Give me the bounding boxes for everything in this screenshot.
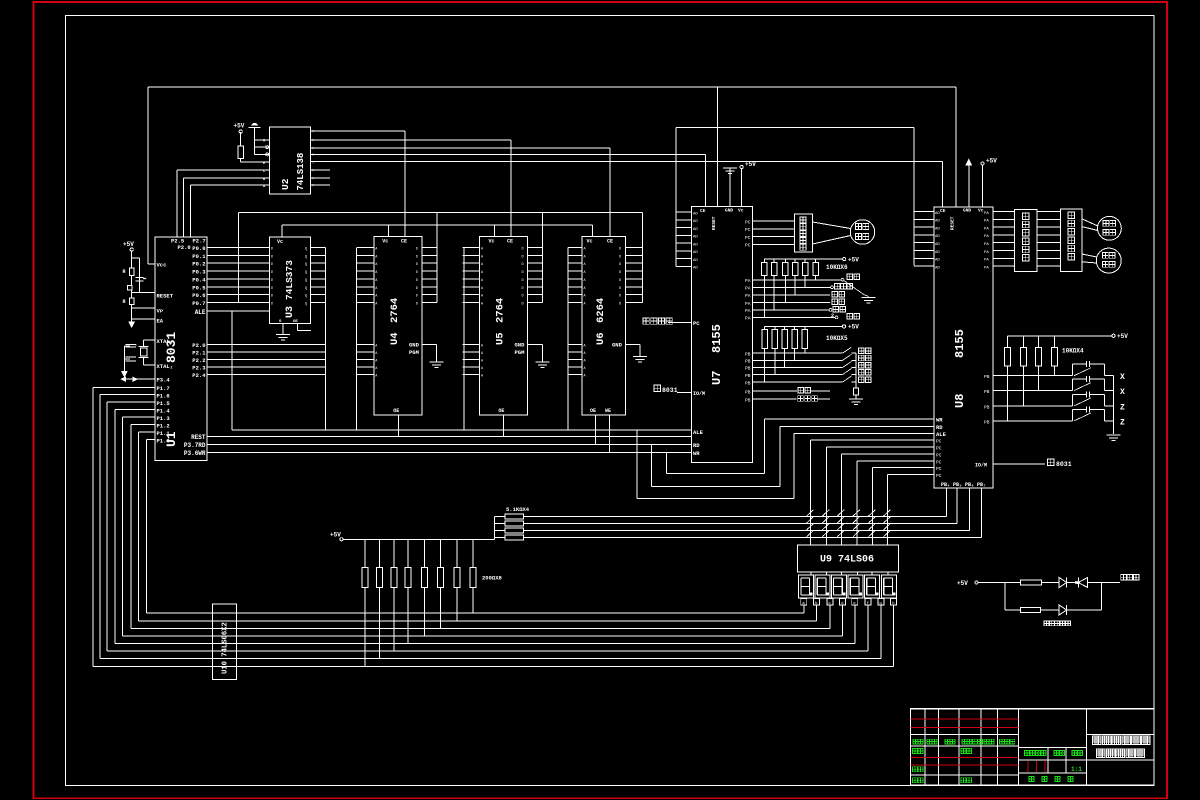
- svg-text:+5V: +5V: [745, 161, 756, 168]
- wire ALE staircase U7 to U8: [636, 430, 638, 498]
- svg-text:+5V: +5V: [986, 158, 997, 165]
- U5 OE pin down: [502, 415, 504, 437]
- svg-text:ALE: ALE: [936, 431, 947, 438]
- svg-text:P3.6WR: P3.6WR: [184, 450, 206, 457]
- wire links between boxes: [1037, 212, 1061, 267]
- svg-text:D: D: [619, 271, 621, 275]
- svg-text:D: D: [522, 303, 524, 307]
- resistor network 10K x6: [762, 259, 819, 317]
- wire AD data rail y=127.5 between U7 and U8: [676, 127, 914, 129]
- svg-text:AD: AD: [693, 267, 698, 271]
- wire ALE branch down to address rail: [231, 311, 233, 430]
- svg-text:CE: CE: [507, 239, 513, 245]
- wire address bus vertical from U3: [325, 248, 327, 431]
- svg-text:C: C: [263, 170, 265, 174]
- svg-text:R: R: [123, 299, 126, 305]
- power +5V for U1 reset circuit: [130, 248, 133, 251]
- svg-text:D: D: [271, 303, 273, 307]
- svg-text:E: E: [263, 162, 265, 166]
- svg-text:P1.0: P1.0: [157, 438, 170, 445]
- svg-text:Vᴘ: Vᴘ: [157, 308, 164, 315]
- ground symbol above U2: [249, 124, 261, 128]
- optocoupler isolation box: [1015, 210, 1038, 272]
- svg-text:PC: PC: [936, 439, 942, 445]
- svg-text:PGM: PGM: [409, 349, 420, 356]
- svg-text:G: G: [263, 140, 265, 144]
- svg-text:D: D: [522, 279, 524, 283]
- svg-text:AD: AD: [693, 228, 698, 232]
- svg-text:AD: AD: [935, 266, 940, 270]
- svg-text:1:1: 1:1: [1071, 766, 1082, 773]
- tool motor circle: [850, 220, 875, 245]
- U8 right PB lines with limit switches X X Z Z: [984, 361, 1125, 427]
- svg-text:D: D: [522, 287, 524, 291]
- svg-text:D: D: [522, 263, 524, 267]
- ground arrow below capacitors: [122, 371, 127, 376]
- svg-text:+5V: +5V: [1117, 333, 1128, 340]
- svg-text:GND: GND: [963, 208, 971, 214]
- svg-text:2: 2: [831, 313, 834, 319]
- U8 IO/M wire to 8031 label: [993, 463, 1045, 465]
- resistor top branch: [1021, 580, 1042, 585]
- svg-text:PA: PA: [984, 235, 989, 239]
- U6 Vcc wire: [592, 225, 594, 237]
- svg-text:AD: AD: [693, 236, 698, 240]
- svg-text:2764: 2764: [495, 298, 507, 323]
- bottom branch resistor: [1005, 609, 1021, 611]
- svg-text:PA: PA: [745, 316, 751, 322]
- U2 output Y3 to U7 CE: [311, 153, 706, 155]
- LED label: [1044, 621, 1049, 626]
- reset pushbutton switch: [128, 285, 133, 290]
- wire +5V to resistor: [240, 132, 242, 146]
- svg-text:PB: PB: [984, 374, 990, 380]
- PA3 switch: [753, 302, 831, 304]
- svg-text:74LS373: 74LS373: [284, 260, 295, 300]
- wire PC0-PC5 lines U8 to U9: [811, 440, 934, 545]
- svg-text:Q: Q: [305, 279, 307, 283]
- wire WR staircase U7 to U8: [666, 453, 668, 474]
- svg-text:Vᴄ: Vᴄ: [587, 239, 593, 245]
- svg-text:ALE: ALE: [195, 309, 206, 316]
- wire rail drop to U1 Vcc: [147, 87, 149, 264]
- svg-text:PB₄ PB₅ PB₆ PB₇: PB₄ PB₅ PB₆ PB₇: [941, 482, 986, 488]
- svg-text:PB: PB: [745, 380, 751, 386]
- resistor pullup at U2 E1: [238, 146, 244, 158]
- svg-text:5.1KΩX4: 5.1KΩX4: [506, 506, 530, 513]
- wire +5V rail for 200ohm pullups: [340, 538, 343, 541]
- U4 OE pin down: [397, 415, 399, 437]
- title block left table verticals: [925, 709, 1019, 786]
- diode D2 reversed: [1077, 578, 1079, 588]
- decoder U2 74LS138 box: [269, 127, 310, 194]
- svg-text:P1.6: P1.6: [157, 393, 170, 400]
- wire ground to U2 enable pins: [254, 128, 256, 155]
- red scale ticks: [1028, 761, 1045, 772]
- wire XTAL2: [144, 364, 155, 366]
- svg-text:P0.2: P0.2: [192, 261, 205, 268]
- longitudinal motor circle: [1098, 216, 1122, 240]
- svg-text:D: D: [271, 263, 273, 267]
- svg-text:P0.7: P0.7: [192, 300, 205, 307]
- svg-text:X: X: [1120, 373, 1125, 382]
- svg-text:P3.4: P3.4: [157, 377, 171, 384]
- svg-text:PB: PB: [745, 373, 751, 379]
- svg-text:AD: AD: [693, 243, 698, 247]
- memory U4 2764 box: [374, 237, 422, 415]
- svg-text:RESET: RESET: [950, 216, 956, 230]
- svg-text:AD: AD: [693, 259, 698, 263]
- svg-text:PB: PB: [984, 419, 990, 425]
- svg-text:RD: RD: [936, 424, 943, 431]
- svg-text:D: D: [522, 271, 524, 275]
- U5 data bus vertical: [542, 213, 544, 303]
- svg-text:Q: Q: [305, 248, 307, 252]
- diode D1: [1059, 578, 1067, 588]
- svg-text:Q: Q: [305, 287, 307, 291]
- svg-text:PC: PC: [936, 460, 942, 466]
- U2 outputs Y5-Y7 stubs: [311, 169, 331, 171]
- svg-text:P1.1: P1.1: [157, 430, 171, 437]
- svg-text:EA: EA: [157, 318, 164, 325]
- PB pullup rail +5V: [765, 325, 843, 327]
- svg-text:PC: PC: [745, 235, 751, 241]
- wire through reset network: [131, 276, 133, 286]
- svg-text:U7: U7: [710, 371, 724, 385]
- svg-text:P2.4: P2.4: [192, 372, 206, 379]
- power +5V above U7: [740, 165, 743, 168]
- U7 IO/M pin wire to 8031 label: [677, 392, 692, 394]
- svg-text:AD: AD: [935, 220, 940, 224]
- svg-text:AD: AD: [935, 251, 940, 255]
- PA1 switch: [753, 286, 831, 288]
- svg-text:U8: U8: [953, 394, 967, 408]
- svg-text:D: D: [619, 263, 621, 267]
- svg-text:D: D: [271, 248, 273, 252]
- svg-text:D: D: [271, 279, 273, 283]
- svg-text:IO/M: IO/M: [975, 463, 987, 469]
- wire P0 data bus U1 to U3: [207, 248, 270, 303]
- svg-text:GND: GND: [515, 342, 526, 349]
- wire 8 segment lines from P1 to displays: [93, 613, 894, 667]
- svg-text:D: D: [416, 303, 418, 307]
- svg-text:D: D: [522, 295, 524, 299]
- svg-text:P1.5: P1.5: [157, 400, 171, 407]
- svg-text:D: D: [619, 303, 621, 307]
- svg-text:PC: PC: [936, 446, 942, 452]
- svg-text:2764: 2764: [389, 298, 401, 323]
- capacitor C2: [125, 343, 136, 345]
- U6 WE pin to WR line: [608, 415, 610, 453]
- svg-text:D: D: [416, 263, 418, 267]
- svg-text:+5V: +5V: [848, 324, 859, 331]
- wire right branch down: [1100, 583, 1102, 611]
- svg-text:RESET: RESET: [711, 216, 717, 230]
- svg-text:PC: PC: [745, 219, 751, 225]
- U7 AD stubs: [676, 212, 698, 271]
- title block red horizontals: [911, 719, 1019, 765]
- power amplifier box: [1061, 209, 1083, 272]
- wire +5V/reset rail y=87: [148, 86, 956, 88]
- U6 upper address stubs: [568, 248, 587, 307]
- wire to EA and ground arrow: [131, 305, 133, 322]
- power +5V for U2 enable pullup: [239, 130, 242, 133]
- U4 data stubs: [416, 248, 437, 307]
- svg-text:PC: PC: [936, 466, 942, 472]
- svg-text:PC: PC: [745, 243, 751, 249]
- svg-text:P2.2: P2.2: [192, 357, 205, 364]
- svg-text:AD: AD: [935, 243, 940, 247]
- svg-text:U4: U4: [389, 332, 401, 345]
- svg-text:PB: PB: [745, 398, 751, 404]
- U6 data bus vertical: [642, 213, 644, 303]
- svg-text:P2.7: P2.7: [193, 238, 206, 245]
- svg-text:Q: Q: [305, 295, 307, 299]
- microcontroller U1 8031 box: [155, 237, 207, 461]
- wire RESET pin: [132, 292, 155, 294]
- resistor R2 in reset divider: [129, 298, 134, 305]
- svg-text:Q: Q: [305, 255, 307, 259]
- svg-text:Q: Q: [305, 263, 307, 267]
- U3 bottom pin G to ground: [282, 323, 284, 334]
- svg-text:8155: 8155: [953, 329, 967, 358]
- diode D3: [1059, 605, 1067, 615]
- svg-text:D: D: [522, 248, 524, 252]
- wire U3 Vcc to rail: [281, 225, 283, 237]
- svg-text:XTAL₂: XTAL₂: [157, 363, 174, 370]
- U4 upper address stubs: [357, 248, 379, 307]
- svg-text:+5V: +5V: [330, 532, 341, 539]
- svg-text:D: D: [416, 271, 418, 275]
- svg-text:10KΩX5: 10KΩX5: [826, 335, 848, 342]
- U2 select input wires C B A from U1 P2.5-P2.7: [177, 169, 269, 171]
- svg-text:Z: Z: [1120, 403, 1125, 412]
- svg-text:PB: PB: [984, 389, 990, 395]
- svg-text:Q: Q: [305, 303, 307, 307]
- svg-text:D: D: [416, 255, 418, 259]
- svg-text:PC: PC: [693, 320, 700, 327]
- wire address/ALE rail y=430: [232, 429, 692, 431]
- svg-text:GND: GND: [409, 342, 420, 349]
- pullup resistors 5.1K x4: [494, 514, 523, 540]
- crystal Y1: [143, 340, 145, 347]
- wire address bus vertical at U6: [567, 248, 569, 431]
- svg-text:PB: PB: [984, 404, 990, 410]
- U3 input pin ticks: [271, 248, 307, 307]
- svg-text:D: D: [416, 248, 418, 252]
- U8 PA stubs to optocoupler box: [984, 212, 1015, 271]
- svg-text:Z: Z: [1120, 418, 1125, 427]
- svg-text:PA: PA: [984, 259, 989, 263]
- svg-text:CE: CE: [940, 208, 946, 214]
- ground symbol above U7: [723, 168, 737, 174]
- switch common collector to ground via resistor: [855, 353, 857, 388]
- wire address bus vertical at U5: [463, 248, 465, 431]
- wire XTAL1: [144, 339, 155, 341]
- svg-text:8155: 8155: [710, 324, 724, 353]
- wire switch to R2: [131, 290, 133, 298]
- wire ALE U1 to U3 LE: [207, 310, 270, 312]
- svg-text:IO/M: IO/M: [693, 391, 705, 397]
- title block white horizontals left table: [911, 735, 1019, 775]
- svg-text:PC: PC: [745, 227, 751, 233]
- latch U3 74LS373 box: [270, 237, 311, 323]
- svg-text:U10 74LS06X2: U10 74LS06X2: [222, 622, 230, 674]
- svg-text:AD: AD: [935, 212, 940, 216]
- PA0 line with emergency stop switch to ground: [753, 279, 842, 281]
- svg-text:PC: PC: [936, 453, 942, 459]
- title block right title cell: [1087, 734, 1154, 736]
- power arrow above U8: [966, 160, 972, 166]
- svg-text:U2: U2: [280, 178, 291, 190]
- wire data bus tap vertical: [238, 213, 240, 303]
- U4 Vcc pin wire to rail: [387, 225, 389, 237]
- U3 output stubs to address bus: [311, 248, 326, 303]
- memory U6 6264 box: [582, 237, 626, 415]
- svg-text:D: D: [271, 295, 273, 299]
- wire P3.6WR line U1 to U7: [207, 452, 692, 454]
- U7 right PC0-PC3 pin labels and wires to tool controller: [745, 219, 795, 248]
- svg-text:8031: 8031: [662, 387, 678, 394]
- svg-text:P0.3: P0.3: [192, 269, 206, 276]
- wire data bus rail y=212.5: [239, 212, 643, 214]
- wire P2.0-P2.4 address lines: [207, 345, 326, 375]
- svg-text:PA: PA: [984, 243, 989, 247]
- driver U9 74LS06 box: [798, 545, 899, 572]
- svg-text:PB: PB: [745, 351, 751, 357]
- PA4 switch: [753, 309, 830, 311]
- svg-text:PA: PA: [984, 266, 989, 270]
- svg-text:D: D: [619, 255, 621, 259]
- svg-text:8031: 8031: [164, 332, 179, 363]
- svg-text:D: D: [416, 287, 418, 291]
- svg-text:Vᴄᴄ: Vᴄᴄ: [157, 262, 167, 269]
- svg-text:D: D: [271, 287, 273, 291]
- svg-text:10KΩX6: 10KΩX6: [826, 264, 848, 271]
- svg-text:PA: PA: [984, 212, 989, 216]
- U6 lower address stubs: [568, 345, 587, 379]
- wire U8 bottom PB4-PB7 down and left: [523, 488, 981, 537]
- resistor network 200ohm x8: [362, 539, 476, 666]
- bus crossing hatch marks: [807, 510, 891, 537]
- wire amp to longitudinal motor: [1082, 219, 1098, 226]
- svg-text:PA: PA: [745, 293, 751, 299]
- svg-text:P2.0: P2.0: [192, 342, 205, 349]
- svg-text:74LS138: 74LS138: [296, 153, 306, 191]
- svg-text:P1.7: P1.7: [157, 385, 170, 392]
- svg-text:CE: CE: [607, 239, 613, 245]
- svg-text:Vᴄ: Vᴄ: [489, 239, 495, 245]
- svg-text:P1.2: P1.2: [157, 423, 170, 430]
- svg-text:RD: RD: [693, 442, 700, 449]
- svg-text:PB: PB: [745, 359, 751, 365]
- U5 upper address stubs: [463, 248, 485, 307]
- peripheral U7 8155 box: [692, 206, 753, 462]
- U7 PB lines with switch array: [745, 347, 871, 386]
- svg-text:AD: AD: [935, 235, 940, 239]
- svg-text:PA: PA: [745, 278, 751, 284]
- svg-text:U5: U5: [495, 332, 507, 345]
- tool post controller box: [795, 214, 813, 252]
- svg-text:U3: U3: [285, 306, 296, 318]
- wire branch to reset capacitor: [132, 257, 140, 259]
- svg-text:Vᴄ: Vᴄ: [382, 239, 388, 245]
- green row labels design/draw: [913, 749, 918, 754]
- svg-text:P0.1: P0.1: [192, 253, 206, 260]
- U3 bottom pin OE jog: [296, 323, 298, 330]
- svg-text:200ΩX8: 200ΩX8: [482, 575, 503, 582]
- wire switch common to ground: [1113, 376, 1115, 435]
- display segment connector pins: [801, 598, 897, 666]
- memory U5 2764 box: [480, 237, 528, 415]
- svg-text:D: D: [619, 279, 621, 283]
- U2 output Y1 to U5 CE: [311, 139, 512, 141]
- svg-text:OE: OE: [498, 408, 504, 414]
- svg-text:PA: PA: [745, 286, 751, 292]
- wire rail drop to U8 RESET: [955, 87, 957, 207]
- svg-text:Vᴄ: Vᴄ: [277, 239, 283, 245]
- svg-text:D: D: [271, 271, 273, 275]
- output label: [1121, 575, 1127, 581]
- svg-text:+5V: +5V: [234, 123, 245, 130]
- wire REST line U1 to U7: [207, 436, 692, 438]
- svg-text:Vᴄ: Vᴄ: [978, 208, 984, 214]
- svg-text:Vᴄ: Vᴄ: [738, 208, 744, 214]
- svg-text:AD: AD: [693, 220, 698, 224]
- U2 output Y2 to U6 CE: [311, 147, 611, 149]
- svg-text:PA: PA: [984, 220, 989, 224]
- peripheral U8 8155 box: [934, 207, 993, 488]
- svg-text:U6: U6: [595, 332, 607, 345]
- U9 outputs to displays: [811, 572, 888, 575]
- svg-text:PA: PA: [984, 251, 989, 255]
- svg-text:PGM: PGM: [515, 349, 526, 356]
- svg-text:6264: 6264: [595, 298, 607, 323]
- U7 PA pin wires with switch labels: [745, 278, 751, 322]
- U5 Vcc pin wire to rail: [494, 225, 496, 237]
- wire resistor to U2 pin E1: [240, 158, 242, 162]
- wire Vpp pin: [132, 307, 155, 309]
- svg-text:10KΩX4: 10KΩX4: [1062, 348, 1084, 355]
- svg-text:P0.6: P0.6: [192, 292, 205, 299]
- U6 data stubs: [619, 248, 643, 307]
- svg-text:+5V: +5V: [848, 257, 859, 264]
- svg-text:D: D: [522, 255, 524, 259]
- wire U8 AD bus vertical: [913, 128, 915, 266]
- svg-text:AD: AD: [935, 259, 940, 263]
- svg-text:REST: REST: [191, 434, 206, 441]
- wire P3.7RD line U1 to U7: [207, 444, 692, 446]
- svg-text:D: D: [271, 255, 273, 259]
- PA2 switch: [753, 294, 831, 296]
- svg-text:OE: OE: [293, 320, 298, 324]
- svg-text:Q: Q: [305, 271, 307, 275]
- svg-text:R: R: [123, 269, 126, 275]
- green bottom labels sheet numbers: [1029, 777, 1073, 782]
- svg-text:AD: AD: [935, 227, 940, 231]
- svg-text:PC: PC: [936, 473, 942, 479]
- svg-text:GND: GND: [725, 208, 733, 214]
- svg-text:D: D: [619, 248, 621, 252]
- U2 output Y0 to U4 CE: [311, 130, 406, 132]
- green header labels: [913, 739, 1015, 744]
- svg-text:P0.4: P0.4: [192, 276, 206, 283]
- svg-text:U9 74LS06: U9 74LS06: [820, 555, 874, 566]
- svg-text:8031: 8031: [1056, 461, 1072, 468]
- Vcc rail for memory chips y=225: [282, 224, 593, 226]
- svg-text:WE: WE: [605, 408, 611, 414]
- resistor R1 in reset divider: [129, 268, 134, 276]
